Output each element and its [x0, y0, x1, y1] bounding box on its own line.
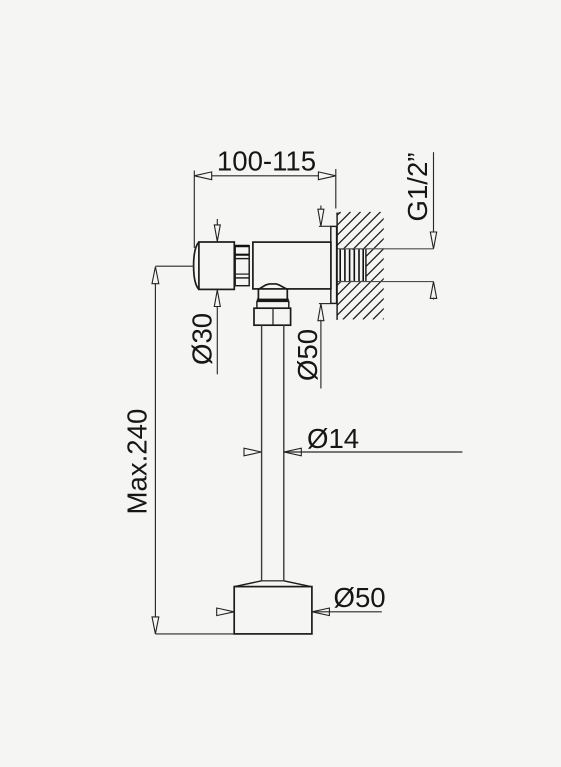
supply pipe bottom edge in wall	[337, 281, 433, 283]
svg-text:Max.240: Max.240	[122, 409, 153, 515]
dim Max.240 vertical line	[154, 283, 156, 619]
dim O50 bottom leader line	[312, 611, 382, 613]
wall flange escutcheon	[331, 226, 337, 303]
thread end boundary	[365, 249, 367, 282]
wall face line	[336, 213, 338, 320]
valve main body	[253, 242, 331, 289]
svg-text:100-115: 100-115	[217, 146, 316, 177]
dim O14 leader line	[284, 451, 463, 453]
dim O50 flange bottom tick + leader	[319, 303, 331, 305]
nut face divider	[272, 308, 274, 325]
svg-text:G1/2”: G1/2”	[402, 152, 433, 221]
dim O50 flange top tick	[319, 225, 331, 227]
extension line left (button)	[193, 171, 195, 249]
funnel right slant	[284, 581, 311, 587]
svg-text:Ø50: Ø50	[292, 329, 323, 381]
dim O30 arrow top	[216, 219, 218, 226]
outlet nut	[254, 308, 291, 325]
svg-text:Ø50: Ø50	[334, 582, 386, 613]
threaded tail pipe thread lines	[340, 249, 363, 282]
wall hatch	[233, 212, 491, 320]
funnel left slant	[235, 581, 262, 587]
elbow seal band	[257, 299, 289, 302]
down pipe right edge	[283, 325, 285, 581]
outlet elbow dome	[258, 284, 287, 299]
dim 100-115 line	[194, 175, 335, 177]
connector ring between button and body	[235, 246, 249, 286]
dim O30 arrow bottom + leader	[214, 290, 220, 307]
dim O50 bottom arrows	[217, 608, 234, 616]
elbow collar	[257, 301, 289, 308]
extension line right (wall face)	[335, 169, 337, 209]
dim O14 arrows	[244, 448, 261, 456]
thread hole background	[337, 250, 365, 281]
pipe end cap	[262, 580, 284, 582]
bottom cylinder	[234, 587, 312, 634]
dim Max.240 bottom reference line	[155, 633, 234, 635]
wall top corner tick	[336, 212, 340, 214]
svg-text:Ø30: Ø30	[187, 313, 218, 365]
push button rounded cap	[194, 242, 199, 289]
dim G1/2 vertical line	[433, 152, 435, 233]
supply pipe top edge in wall	[337, 248, 433, 250]
svg-text:Ø14: Ø14	[307, 423, 359, 454]
down pipe left edge	[261, 325, 263, 581]
dim Max.240 top reference line	[155, 265, 194, 267]
push button body	[199, 242, 234, 289]
